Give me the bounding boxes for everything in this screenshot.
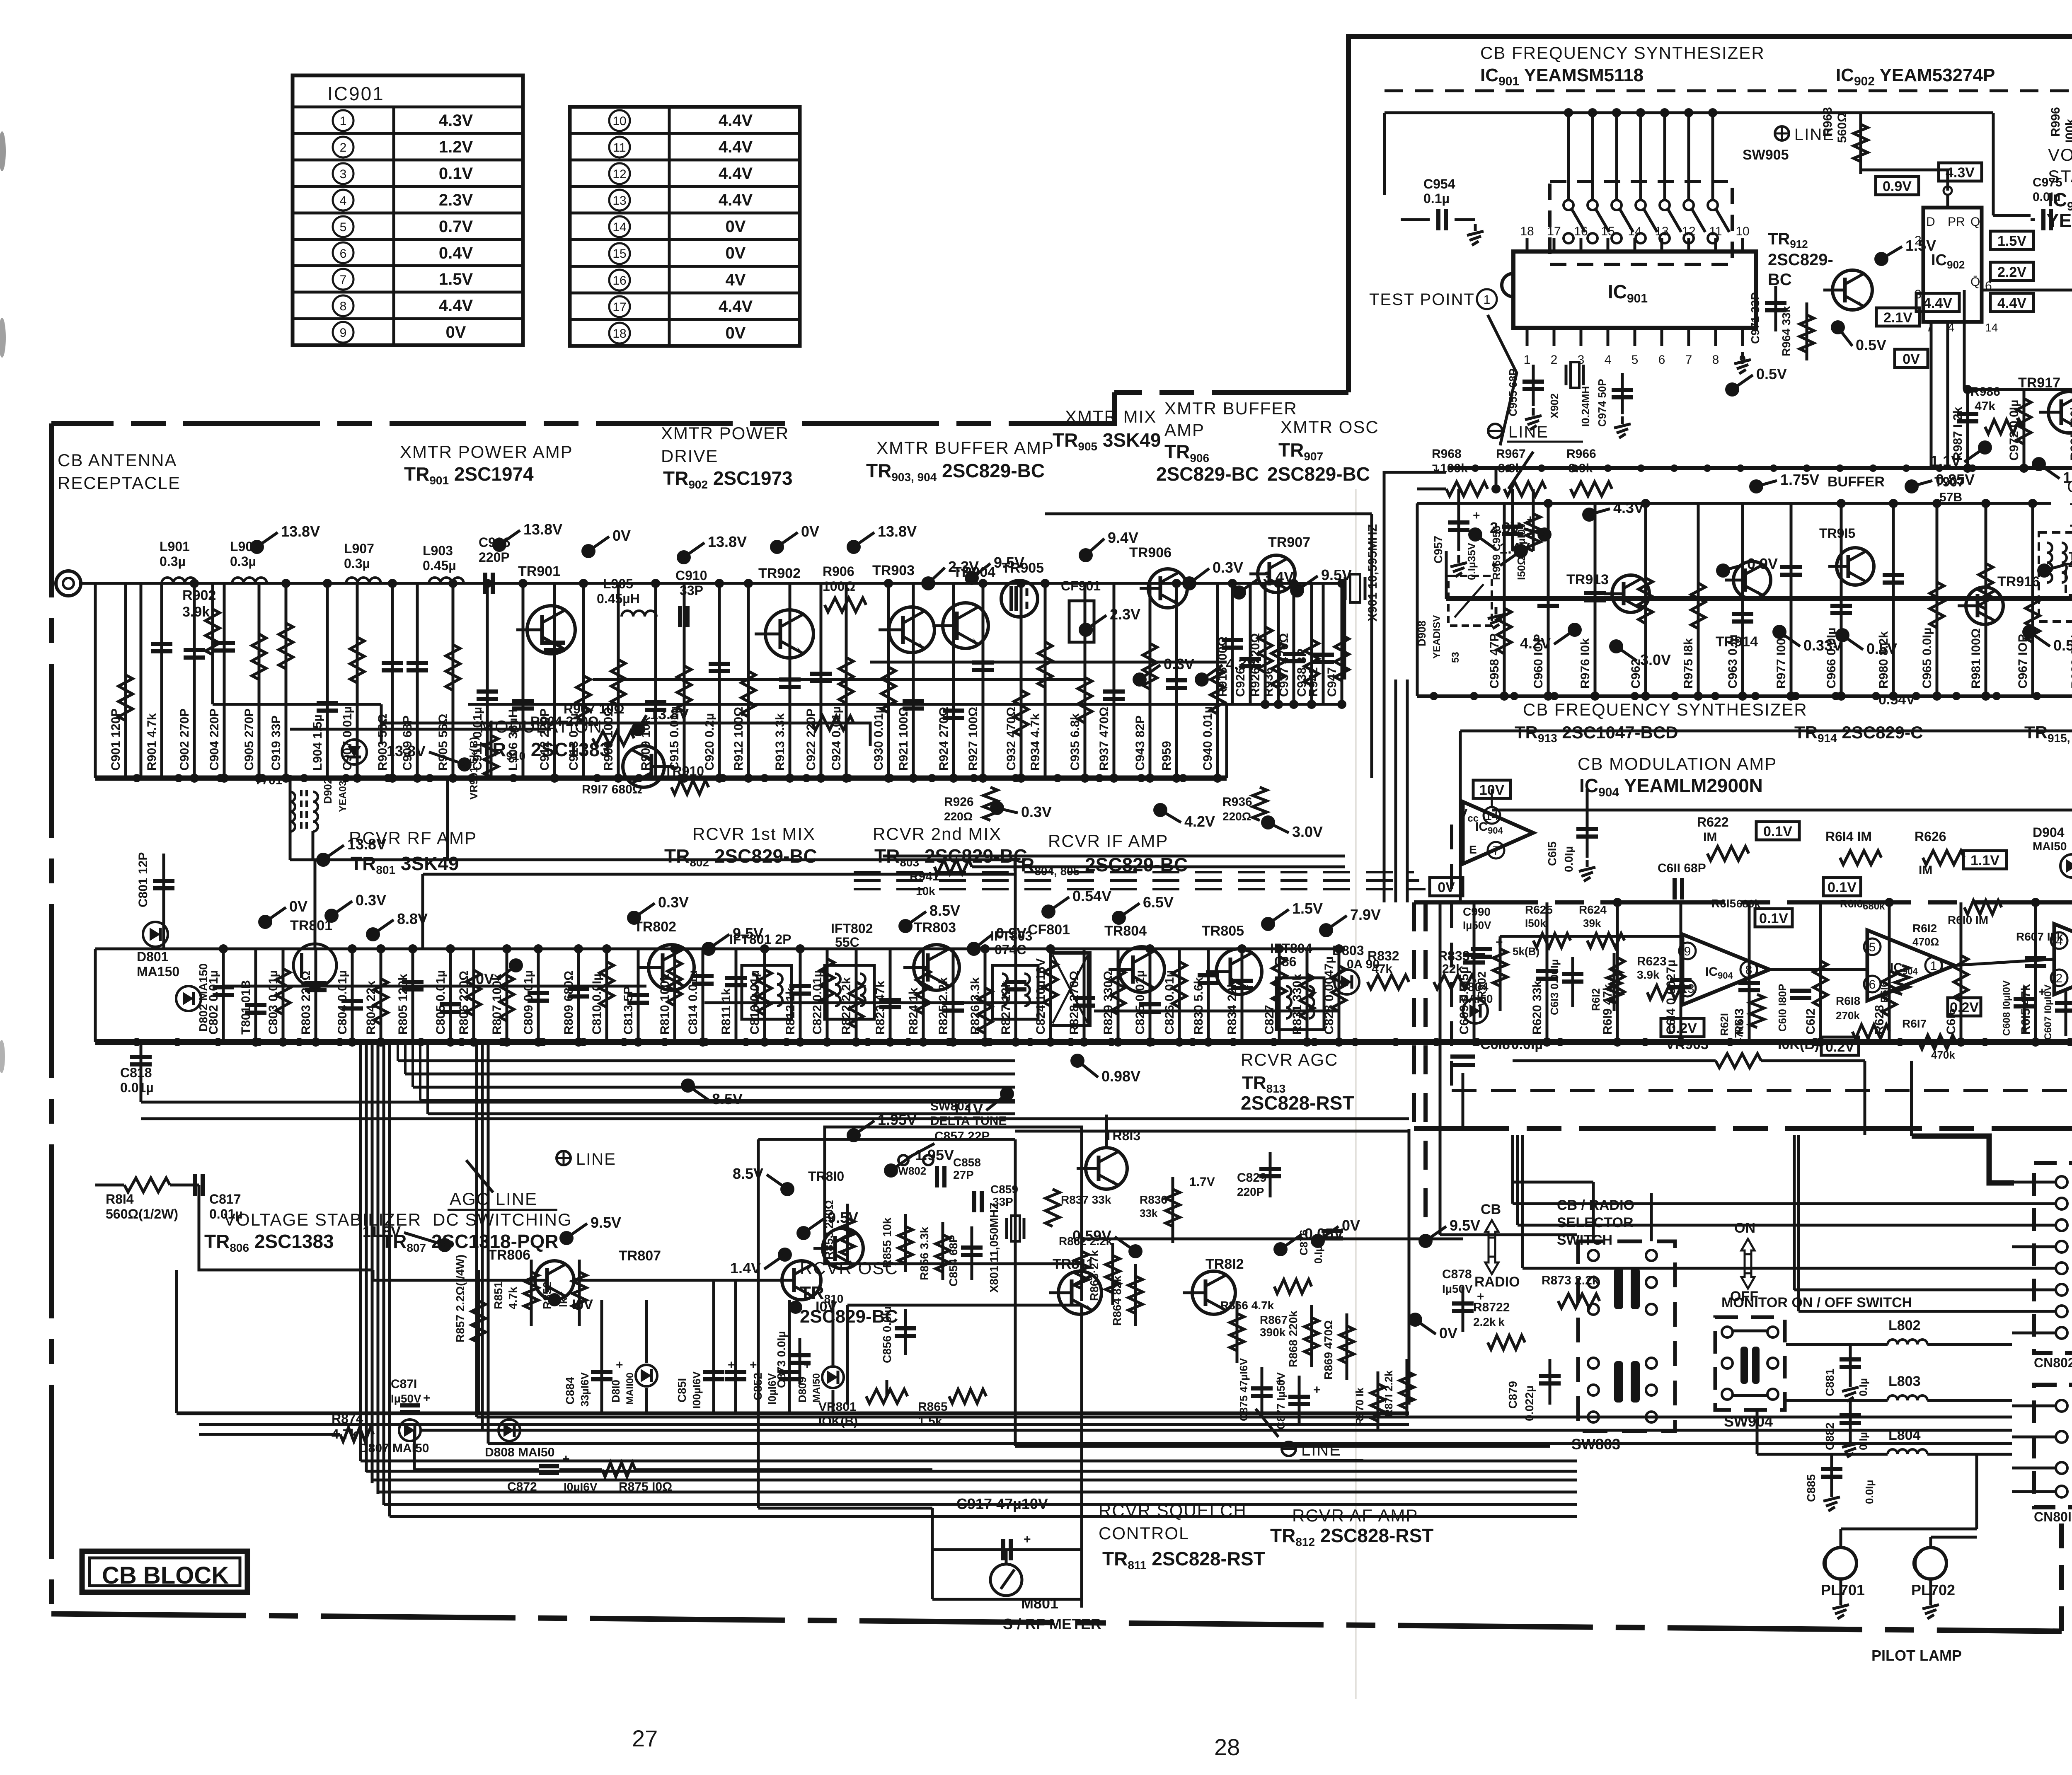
label plus LINE top: [1775, 126, 1789, 140]
component C824: [1049, 949, 1052, 1042]
svg-text:R926: R926: [944, 795, 974, 809]
switch contact: [1646, 1250, 1657, 1261]
transistor TR802: [649, 945, 694, 990]
svg-text:C904 220P: C904 220P: [208, 709, 221, 771]
CN802 feed wires: [1513, 1202, 2012, 1205]
svg-text:33P: 33P: [680, 583, 703, 598]
svg-text:C879: C879: [1506, 1381, 1519, 1409]
svg-text:PL701: PL701: [1821, 1582, 1865, 1598]
svg-text:1: 1: [1930, 959, 1937, 973]
component C609: [1473, 902, 1476, 1042]
component C904: [223, 583, 226, 778]
voltage callout: [509, 958, 523, 972]
dashed varactor box D908: [1448, 576, 1492, 626]
component T801: [254, 949, 257, 1042]
svg-text:R868 220k: R868 220k: [1287, 1311, 1300, 1367]
right cluster transistors TR917 TR918 TR919: [2048, 392, 2072, 433]
component R628: [1888, 902, 1891, 1042]
svg-text:074C: 074C: [995, 942, 1026, 957]
IF transformer IFT803: [992, 965, 1038, 1019]
svg-text:57B: 57B: [1939, 491, 1962, 504]
transistor TR813: [1086, 1148, 1127, 1189]
wire synth to modamp: [1439, 902, 1442, 1235]
svg-text:C6I3 0.00Iµ: C6I3 0.00Iµ: [1548, 959, 1561, 1015]
voltage callout 11.8V: [438, 1238, 452, 1252]
component R804: [380, 949, 382, 1042]
svg-text:TR902: TR902: [758, 566, 801, 581]
svg-text:2: 2: [1551, 353, 1558, 367]
voltage callout: [847, 540, 861, 554]
svg-text:470Ω: 470Ω: [1912, 936, 1939, 948]
svg-text:3.0V: 3.0V: [1640, 651, 1671, 668]
svg-text:2.3V: 2.3V: [439, 191, 473, 209]
svg-text:4.4V: 4.4V: [719, 297, 753, 316]
component R975: [1697, 503, 1700, 696]
svg-text:CB: CB: [1481, 1202, 1501, 1217]
svg-text:1.5V: 1.5V: [439, 270, 473, 288]
svg-text:TR802: TR802: [634, 919, 676, 935]
connector CN801(P) dashed box: [2034, 1385, 2072, 1507]
svg-text:CONTROL: CONTROL: [1099, 1524, 1189, 1543]
VR901 pot: [484, 735, 498, 777]
switch contact: [1722, 1389, 1733, 1400]
voltage callout: [967, 942, 981, 956]
resistor R832 47k: [1368, 975, 1409, 989]
connector pin: [2056, 1241, 2067, 1253]
svg-text:L802: L802: [1888, 1318, 1921, 1333]
svg-text:TR901: TR901: [518, 563, 560, 579]
component C909: [416, 583, 419, 778]
connector pin: [2056, 1486, 2067, 1497]
component C912: [553, 583, 556, 778]
label plus LINE left: [557, 1151, 571, 1165]
svg-text:C972 0.0Iµ: C972 0.0Iµ: [2007, 400, 2021, 461]
bottom-right section solid box: [1460, 730, 2072, 733]
svg-text:0.45µH: 0.45µH: [597, 591, 640, 606]
meter M801: [990, 1564, 1022, 1596]
voltage callout: [1079, 548, 1093, 562]
svg-text:7: 7: [1493, 844, 1500, 858]
inductor L903: [429, 578, 464, 583]
svg-text:560Ω(1/2W): 560Ω(1/2W): [106, 1207, 178, 1221]
switch pole SW905: [1711, 113, 1714, 199]
svg-text:C607 I0µI0V: C607 I0µI0V: [2043, 984, 2054, 1040]
svg-text:MAI50: MAI50: [811, 1373, 822, 1403]
voltage callout: [921, 576, 935, 590]
svg-text:2SC828-RST: 2SC828-RST: [1241, 1092, 1354, 1114]
transistor TR903: [889, 607, 934, 653]
svg-text:R995 I00k: R995 I00k: [2068, 403, 2072, 461]
svg-text:C805 0.01µ: C805 0.01µ: [434, 970, 448, 1035]
voltage callout: [492, 538, 506, 552]
svg-text:D908: D908: [1416, 621, 1428, 646]
svg-text:R936: R936: [1262, 660, 1276, 697]
svg-text:R975 I8k: R975 I8k: [1682, 638, 1695, 689]
svg-text:RCVR 2nd MIX: RCVR 2nd MIX: [873, 824, 1002, 844]
svg-text:11: 11: [613, 141, 626, 155]
voltage callout: [1070, 1054, 1084, 1068]
connector pin: [2056, 1284, 2067, 1296]
component C911: [486, 583, 489, 778]
component R927: [982, 583, 985, 778]
svg-text:D801: D801: [137, 949, 169, 964]
svg-text:R963: R963: [1821, 107, 1835, 137]
svg-text:6: 6: [1658, 353, 1665, 367]
inductor L907: [346, 578, 381, 583]
svg-text:Q: Q: [1970, 215, 1980, 229]
svg-text:1.2V: 1.2V: [439, 138, 473, 156]
XMTR lower links: [289, 778, 292, 860]
svg-text:33µI6V: 33µI6V: [579, 1372, 591, 1407]
switch pole SW905: [1615, 113, 1618, 199]
boxed voltages around IC902: [1939, 163, 1982, 181]
transistor TR910 modulation: [623, 746, 664, 787]
svg-text:0.1V: 0.1V: [1759, 911, 1788, 926]
voltage callout: [677, 550, 691, 564]
switch pole SW905: [1591, 113, 1594, 199]
svg-text:R967: R967: [1496, 447, 1526, 461]
wire stabilizer input: [199, 1185, 373, 1270]
svg-text:D8I0: D8I0: [610, 1380, 622, 1403]
svg-text:4.4V: 4.4V: [439, 297, 473, 315]
svg-text:RCVR 1st MIX: RCVR 1st MIX: [692, 824, 816, 844]
svg-text:TR807: TR807: [619, 1248, 661, 1264]
component R987: [1966, 389, 1969, 468]
svg-text:12: 12: [1682, 225, 1695, 238]
page fold seam: [1356, 489, 1357, 1699]
IC901 top pin: [1607, 238, 1610, 251]
svg-text:R968: R968: [1432, 447, 1462, 461]
diode D801 MA150: [143, 922, 168, 947]
svg-text:C876: C876: [1297, 1230, 1310, 1255]
IC901 bottom pin: [1741, 328, 1744, 346]
svg-text:CB MODULATION AMP: CB MODULATION AMP: [1578, 754, 1777, 774]
svg-text:R977 I00Ω: R977 I00Ω: [1774, 628, 1788, 689]
svg-text:R837 33k: R837 33k: [1061, 1193, 1111, 1206]
svg-text:390k: 390k: [1260, 1326, 1286, 1339]
svg-text:C87I: C87I: [391, 1377, 417, 1391]
svg-text:R873 2.2k: R873 2.2k: [1542, 1274, 1599, 1287]
svg-text:R810 100k: R810 100k: [658, 974, 672, 1035]
svg-text:1.95V: 1.95V: [878, 1111, 917, 1128]
svg-text:R836: R836: [1140, 1193, 1167, 1206]
label minus LINE left: [1282, 1442, 1296, 1456]
extra voltage callouts: [250, 540, 264, 554]
component R807: [506, 949, 508, 1042]
voltage callout: [1319, 923, 1333, 937]
transistor TR904: [943, 603, 988, 648]
RCVR top rail: [95, 948, 1345, 950]
svg-text:R623: R623: [1637, 955, 1667, 968]
svg-text:9: 9: [1684, 945, 1691, 958]
switch contact: [1767, 1358, 1778, 1369]
svg-text:13.8V: 13.8V: [281, 523, 320, 540]
svg-text:BUFFER: BUFFER: [1828, 474, 1885, 490]
svg-text:C966 0.0Iµ: C966 0.0Iµ: [1825, 628, 1838, 689]
voltage callout: [1261, 917, 1275, 931]
svg-text:C802 0.01µ: C802 0.01µ: [207, 970, 220, 1035]
svg-text:1: 1: [1484, 293, 1491, 307]
more junction dots XMTR bus: [133, 774, 141, 782]
wires from modamp bus down: [1462, 1073, 1464, 1129]
IF transformer IFT801: [742, 965, 792, 1019]
component C924: [845, 583, 848, 778]
label minus LINE synth: [1488, 424, 1502, 438]
svg-text:R6I3: R6I3: [1733, 1001, 1746, 1035]
svg-text:220Ω: 220Ω: [944, 810, 973, 823]
transistor TR907 circle: [1258, 555, 1295, 592]
svg-text:C971 33P: C971 33P: [1749, 292, 1762, 344]
svg-text:0.Iµ35V: 0.Iµ35V: [1465, 542, 1478, 580]
svg-text:R87I 2.2k: R87I 2.2k: [1382, 1370, 1395, 1417]
component R823: [889, 949, 892, 1042]
crystal filter CF801: [1051, 953, 1090, 1025]
svg-text:0.0Iµ: 0.0Iµ: [1863, 1480, 1876, 1504]
transistor TR807: [782, 1261, 821, 1300]
svg-text:C814 0.01µ: C814 0.01µ: [686, 970, 700, 1035]
svg-text:28: 28: [1214, 1734, 1240, 1760]
IC901 bottom pin: [1661, 328, 1663, 346]
component R809: [577, 949, 580, 1042]
svg-text:RECEPTACLE: RECEPTACLE: [58, 473, 181, 493]
svg-text:55C: 55C: [835, 935, 859, 950]
svg-text:2.3V: 2.3V: [1110, 606, 1140, 623]
svg-text:2: 2: [2056, 972, 2063, 985]
component C810: [605, 949, 608, 1042]
connector CN802(P) dashed box: [2034, 1163, 2072, 1353]
component R6I3: [1748, 902, 1751, 1042]
switch contact: [1588, 1304, 1599, 1315]
svg-text:9: 9: [340, 326, 347, 340]
svg-text:R6I2: R6I2: [1590, 988, 1602, 1011]
svg-text:TR913: TR913: [1566, 572, 1609, 588]
svg-text:C963 0.Iµ: C963 0.Iµ: [1726, 634, 1740, 689]
svg-text:1.5V: 1.5V: [2063, 469, 2072, 486]
svg-text:0.3µ: 0.3µ: [344, 556, 370, 571]
svg-text:PR: PR: [1948, 215, 1965, 229]
IC901 top pin: [1687, 238, 1690, 251]
modulation link wires: [315, 858, 1015, 861]
svg-text:TEST POINT: TEST POINT: [1369, 290, 1475, 309]
component C907: [356, 583, 359, 778]
svg-text:14: 14: [1628, 225, 1641, 238]
svg-text:4: 4: [1605, 353, 1612, 367]
svg-text:0.Iµ: 0.Iµ: [1857, 1432, 1869, 1450]
switch contact: [1646, 1277, 1657, 1288]
svg-text:27P: 27P: [953, 1168, 974, 1181]
svg-text:R6I7: R6I7: [1902, 1017, 1927, 1030]
transistor TR803: [914, 945, 959, 990]
svg-text:10k: 10k: [916, 885, 935, 897]
resistor R902 3.9k: [211, 583, 214, 704]
component C901: [124, 583, 127, 778]
svg-text:27: 27: [632, 1725, 658, 1751]
capacitor C910 33P: [678, 606, 682, 627]
voltage callout: [581, 544, 595, 558]
dashed link synthesizer to modulation amp: [1412, 902, 1416, 1129]
svg-text:0.9V: 0.9V: [996, 925, 1026, 942]
svg-text:CB BLOCK: CB BLOCK: [102, 1562, 229, 1589]
svg-text:9.5V: 9.5V: [1450, 1217, 1480, 1234]
component C827: [1278, 949, 1281, 1042]
RCVR osc box: [825, 1127, 1082, 1264]
svg-text:47k: 47k: [1975, 399, 1995, 413]
component C6I4: [1680, 902, 1682, 1042]
svg-text:0.1V: 0.1V: [1763, 824, 1792, 839]
svg-text:6: 6: [340, 247, 347, 261]
svg-text:C940 0.01µ: C940 0.01µ: [1201, 706, 1215, 771]
svg-text:560Ω: 560Ω: [1835, 112, 1849, 143]
svg-text:C824 10µ16V: C824 10µ16V: [1034, 958, 1048, 1035]
switch contact: [1646, 1304, 1657, 1315]
pilot lamp PL701: [1825, 1548, 1857, 1579]
component R811: [735, 949, 738, 1042]
svg-text:13: 13: [1655, 225, 1668, 238]
wire TR bases: [456, 1279, 535, 1282]
modulation loop wires: [381, 723, 870, 746]
svg-text:M801: M801: [1021, 1595, 1058, 1612]
meter leads: [1005, 1550, 1008, 1564]
switch contact: [1588, 1250, 1599, 1261]
svg-text:0.0Iµ: 0.0Iµ: [2033, 190, 2060, 204]
diode D802 MA150: [176, 986, 201, 1011]
svg-text:MAII00: MAII00: [625, 1373, 636, 1405]
svg-text:TR806 2SC1383: TR806 2SC1383: [204, 1231, 334, 1254]
voltage callout: [324, 909, 339, 923]
transistor TR804: [1119, 947, 1164, 992]
svg-text:2SC829-: 2SC829-: [1768, 251, 1833, 269]
svg-text:DRIVE: DRIVE: [661, 446, 718, 466]
wire RCVR bus to squelch area: [1080, 1305, 1083, 1508]
transistor TR806: [535, 1261, 574, 1300]
diode D803 OA90: [1334, 970, 1359, 994]
svg-text:C884: C884: [564, 1377, 576, 1405]
component C963: [1741, 503, 1744, 696]
svg-text:8: 8: [1712, 353, 1719, 367]
svg-text:4.4V: 4.4V: [719, 111, 753, 130]
svg-text:C6I5: C6I5: [1546, 842, 1559, 866]
component R909: [654, 583, 657, 778]
svg-text:R866 4.7k: R866 4.7k: [1220, 1299, 1274, 1312]
svg-text:YEADISV: YEADISV: [1431, 615, 1443, 659]
svg-text:0V: 0V: [1438, 880, 1455, 895]
svg-text:680k: 680k: [1863, 901, 1885, 912]
component R812: [799, 949, 802, 1042]
svg-text:D904: D904: [2033, 825, 2065, 840]
svg-text:VOLTAGE: VOLTAGE: [2048, 145, 2072, 164]
svg-text:+: +: [1313, 1383, 1321, 1397]
svg-text:R624: R624: [1579, 903, 1607, 916]
switch pole SW905: [1663, 113, 1666, 199]
IC902 pin wires: [1946, 322, 1949, 468]
svg-text:3.9k: 3.9k: [1637, 968, 1660, 981]
IC901 top pin: [1580, 238, 1583, 251]
crystal X902 cluster under IC901: [1565, 365, 1568, 385]
voltage callout: [366, 927, 380, 941]
voltage dots synth lower: [1749, 479, 1763, 493]
transistor TR913: [1612, 575, 1649, 612]
harness horizontal wires lower: [361, 1460, 1577, 1463]
svg-text:TR905 3SK49: TR905 3SK49: [1053, 429, 1161, 453]
inductor L901: [162, 578, 196, 583]
svg-text:0V: 0V: [726, 244, 746, 262]
svg-text:R827 12k: R827 12k: [999, 981, 1013, 1035]
component R830: [1207, 949, 1210, 1042]
svg-text:R834 22k: R834 22k: [1225, 981, 1239, 1035]
svg-text:53: 53: [1450, 652, 1461, 663]
connector pin: [2056, 1306, 2067, 1317]
svg-text:C85I: C85I: [675, 1378, 688, 1403]
component R6I5: [2034, 902, 2037, 1042]
component R926: [1264, 583, 1267, 704]
svg-text:R9I7 680Ω: R9I7 680Ω: [582, 783, 642, 796]
svg-text:0.9V: 0.9V: [1883, 179, 1912, 194]
component R6I9: [1616, 902, 1619, 1042]
inductor L902: [232, 578, 267, 583]
IC901 bottom pin: [1526, 328, 1529, 346]
synth top rail plus line: [1385, 111, 1993, 114]
svg-text:TR907: TR907: [1268, 534, 1310, 550]
transistor TR906 circle: [1148, 569, 1187, 608]
svg-text:C875 47µI6V: C875 47µI6V: [1237, 1358, 1250, 1421]
component R981: [1985, 503, 1987, 696]
svg-text:C6II 68P: C6II 68P: [1658, 861, 1706, 875]
svg-text:7: 7: [1685, 353, 1692, 367]
diode D902: [342, 740, 367, 764]
IF transformer IFT804: [1276, 978, 1324, 1030]
IC901 bottom pin: [1634, 328, 1636, 346]
component C926: [1249, 583, 1252, 704]
svg-text:2.1V: 2.1V: [1883, 310, 1912, 326]
svg-text:L904 1.5µ: L904 1.5µ: [311, 714, 324, 771]
svg-text:CB ANTENNA: CB ANTENNA: [58, 450, 177, 470]
connector pin: [2056, 1219, 2067, 1231]
svg-text:AMP: AMP: [1164, 420, 1205, 440]
svg-text:IC901: IC901: [327, 83, 385, 104]
component C915: [683, 583, 686, 778]
svg-text:C6I4 0.0027µ: C6I4 0.0027µ: [1664, 960, 1678, 1035]
component C960: [1547, 503, 1550, 696]
svg-text:0.4V: 0.4V: [439, 244, 473, 262]
svg-text:4.3V: 4.3V: [439, 111, 473, 130]
switch bank SW905 dashed box: [1550, 181, 1732, 264]
synth minus line heavy rail: [1447, 466, 2072, 470]
svg-text:R964 33k: R964 33k: [1780, 306, 1793, 356]
transistor TR801 rf amp: [293, 944, 336, 987]
XMTR OSC sub-box: [1045, 513, 1372, 515]
component C6I6: [1960, 902, 1963, 1042]
svg-text:TR906: TR906: [1129, 545, 1172, 561]
component R829: [1117, 949, 1120, 1042]
svg-text:220P: 220P: [1237, 1185, 1264, 1198]
svg-text:BC: BC: [1768, 271, 1792, 289]
svg-text:CN802(P): CN802(P): [2034, 1355, 2072, 1370]
svg-text:R8I4: R8I4: [106, 1192, 134, 1207]
component C804: [351, 949, 354, 1042]
switch pole SW905: [1639, 113, 1642, 199]
svg-text:R867: R867: [1260, 1313, 1288, 1326]
component C809: [537, 949, 540, 1042]
voltage callout 13.8V modulation: [457, 757, 472, 771]
component R826: [984, 949, 987, 1042]
switch contact: [1646, 1412, 1657, 1422]
component R901: [160, 583, 163, 778]
svg-text:C810 0.0Iµ: C810 0.0Iµ: [590, 974, 604, 1035]
svg-text:R901 4.7k: R901 4.7k: [145, 713, 159, 771]
svg-text:R976 I0k: R976 I0k: [1578, 638, 1592, 689]
more junction dots modamp bus: [1471, 1038, 1479, 1046]
svg-text:TR914 2SC829-C: TR914 2SC829-C: [1794, 723, 1923, 745]
